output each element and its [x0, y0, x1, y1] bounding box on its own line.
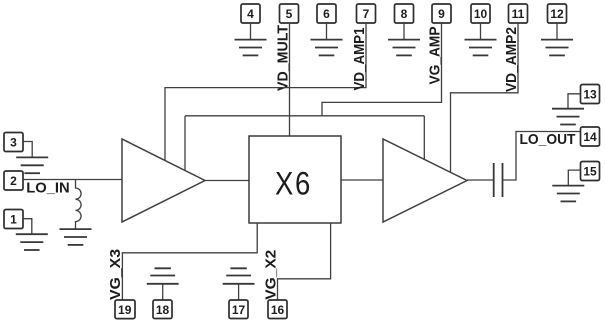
pin 18	[153, 300, 172, 319]
pin 5	[280, 4, 299, 23]
svg-text:7: 7	[363, 7, 370, 21]
wire pin15 to ground	[568, 170, 580, 186]
svg-text:4: 4	[247, 7, 254, 21]
amplifier A2	[383, 139, 467, 222]
svg-text:LO_IN: LO_IN	[26, 180, 69, 197]
svg-text:18: 18	[156, 303, 170, 317]
svg-text:5: 5	[286, 7, 293, 21]
svg-text:VG_AMP: VG_AMP	[427, 27, 444, 85]
svg-text:14: 14	[583, 130, 597, 144]
svg-text:X6: X6	[275, 166, 312, 202]
svg-text:8: 8	[401, 7, 408, 21]
ground (pin 1)	[16, 234, 48, 250]
svg-text:12: 12	[550, 7, 564, 21]
inductor L1	[76, 180, 82, 230]
pin 3	[4, 133, 23, 152]
pin 9	[432, 4, 451, 23]
wire pin4 stem	[250, 23, 252, 40]
wire amp1 to X6	[205, 180, 249, 182]
svg-text:VG_X3: VG_X3	[107, 249, 124, 300]
wire amp2 to capacitor	[467, 179, 494, 181]
pin 11	[509, 4, 528, 23]
ground (pin 18, flipped)	[147, 268, 179, 284]
pin 1	[4, 210, 23, 229]
ground (pin 8)	[388, 40, 420, 56]
svg-text:1: 1	[10, 213, 17, 227]
svg-text:VD_AMP1: VD_AMP1	[351, 28, 368, 91]
svg-text:19: 19	[118, 303, 132, 317]
svg-text:VD_AMP2: VD_AMP2	[503, 27, 520, 92]
pin 4	[241, 4, 260, 23]
ground (inductor)	[60, 229, 92, 245]
wire capacitor to pin14	[503, 132, 581, 181]
wire VG_AMP bus	[185, 115, 424, 117]
pin 8	[395, 4, 414, 23]
pin 17	[229, 300, 248, 319]
wire pin17 stem	[238, 284, 240, 300]
wire VG_AMP drop to amp1	[184, 116, 186, 171]
svg-text:16: 16	[271, 303, 285, 317]
svg-text:6: 6	[323, 7, 330, 21]
ground (pin 12)	[541, 40, 573, 56]
wire pin1 to ground	[23, 219, 32, 235]
multiplier U1 X6	[249, 136, 341, 223]
pin 16	[268, 300, 287, 319]
wire LO_IN	[23, 179, 122, 181]
amplifier A1	[122, 139, 205, 222]
svg-text:VD_MULT: VD_MULT	[275, 25, 292, 91]
pin 2	[4, 171, 23, 190]
svg-text:9: 9	[438, 7, 445, 21]
capacitor C1	[494, 163, 503, 197]
svg-text:3: 3	[10, 136, 17, 150]
wire pin12 stem	[556, 23, 558, 40]
pin 7	[357, 4, 376, 23]
svg-text:13: 13	[583, 88, 597, 102]
svg-text:LO_OUT: LO_OUT	[520, 131, 576, 148]
wire X6 to pin19 VG_X3	[122, 223, 257, 300]
pin 10	[471, 4, 490, 23]
svg-text:17: 17	[232, 303, 246, 317]
pin 13	[581, 85, 600, 104]
pin 12	[548, 4, 567, 23]
wire X6 to amp2	[341, 179, 383, 181]
ground (pin 10)	[465, 40, 497, 56]
wire pin6 stem	[326, 23, 328, 40]
ground (pin 6)	[311, 40, 343, 56]
pin 6	[317, 4, 336, 23]
wire pin3 to ground	[23, 142, 32, 158]
pin 14	[581, 127, 600, 146]
ground (pin 15)	[552, 186, 584, 202]
wire pin13 to ground	[568, 94, 581, 109]
wire VD_AMP1 pin7 to amp1	[165, 23, 366, 160]
pin 15	[581, 162, 600, 181]
svg-text:2: 2	[10, 174, 17, 188]
wire VG_AMP drop to amp2	[423, 116, 425, 160]
wire pin8 stem	[403, 23, 405, 40]
wire X6 to pin16 VG_X2	[278, 223, 331, 300]
ground (pin 4)	[235, 40, 267, 56]
ground (pin 17, flipped)	[223, 268, 255, 284]
svg-text:VG_X2: VG_X2	[263, 250, 280, 300]
ground (pin 13)	[552, 109, 584, 125]
svg-text:11: 11	[512, 7, 525, 21]
wire pin10 stem	[480, 23, 482, 40]
wire VD_MULT pin5 to X6 top	[289, 23, 291, 136]
pin 19	[115, 300, 135, 319]
wire VG_AMP pin9 down and left	[322, 23, 442, 116]
svg-text:10: 10	[474, 7, 488, 21]
ground (pin 3)	[16, 157, 48, 173]
svg-text:15: 15	[583, 165, 597, 179]
wire VD_AMP2 pin11 to amp2	[451, 23, 519, 172]
wire pin18 stem	[162, 284, 164, 300]
